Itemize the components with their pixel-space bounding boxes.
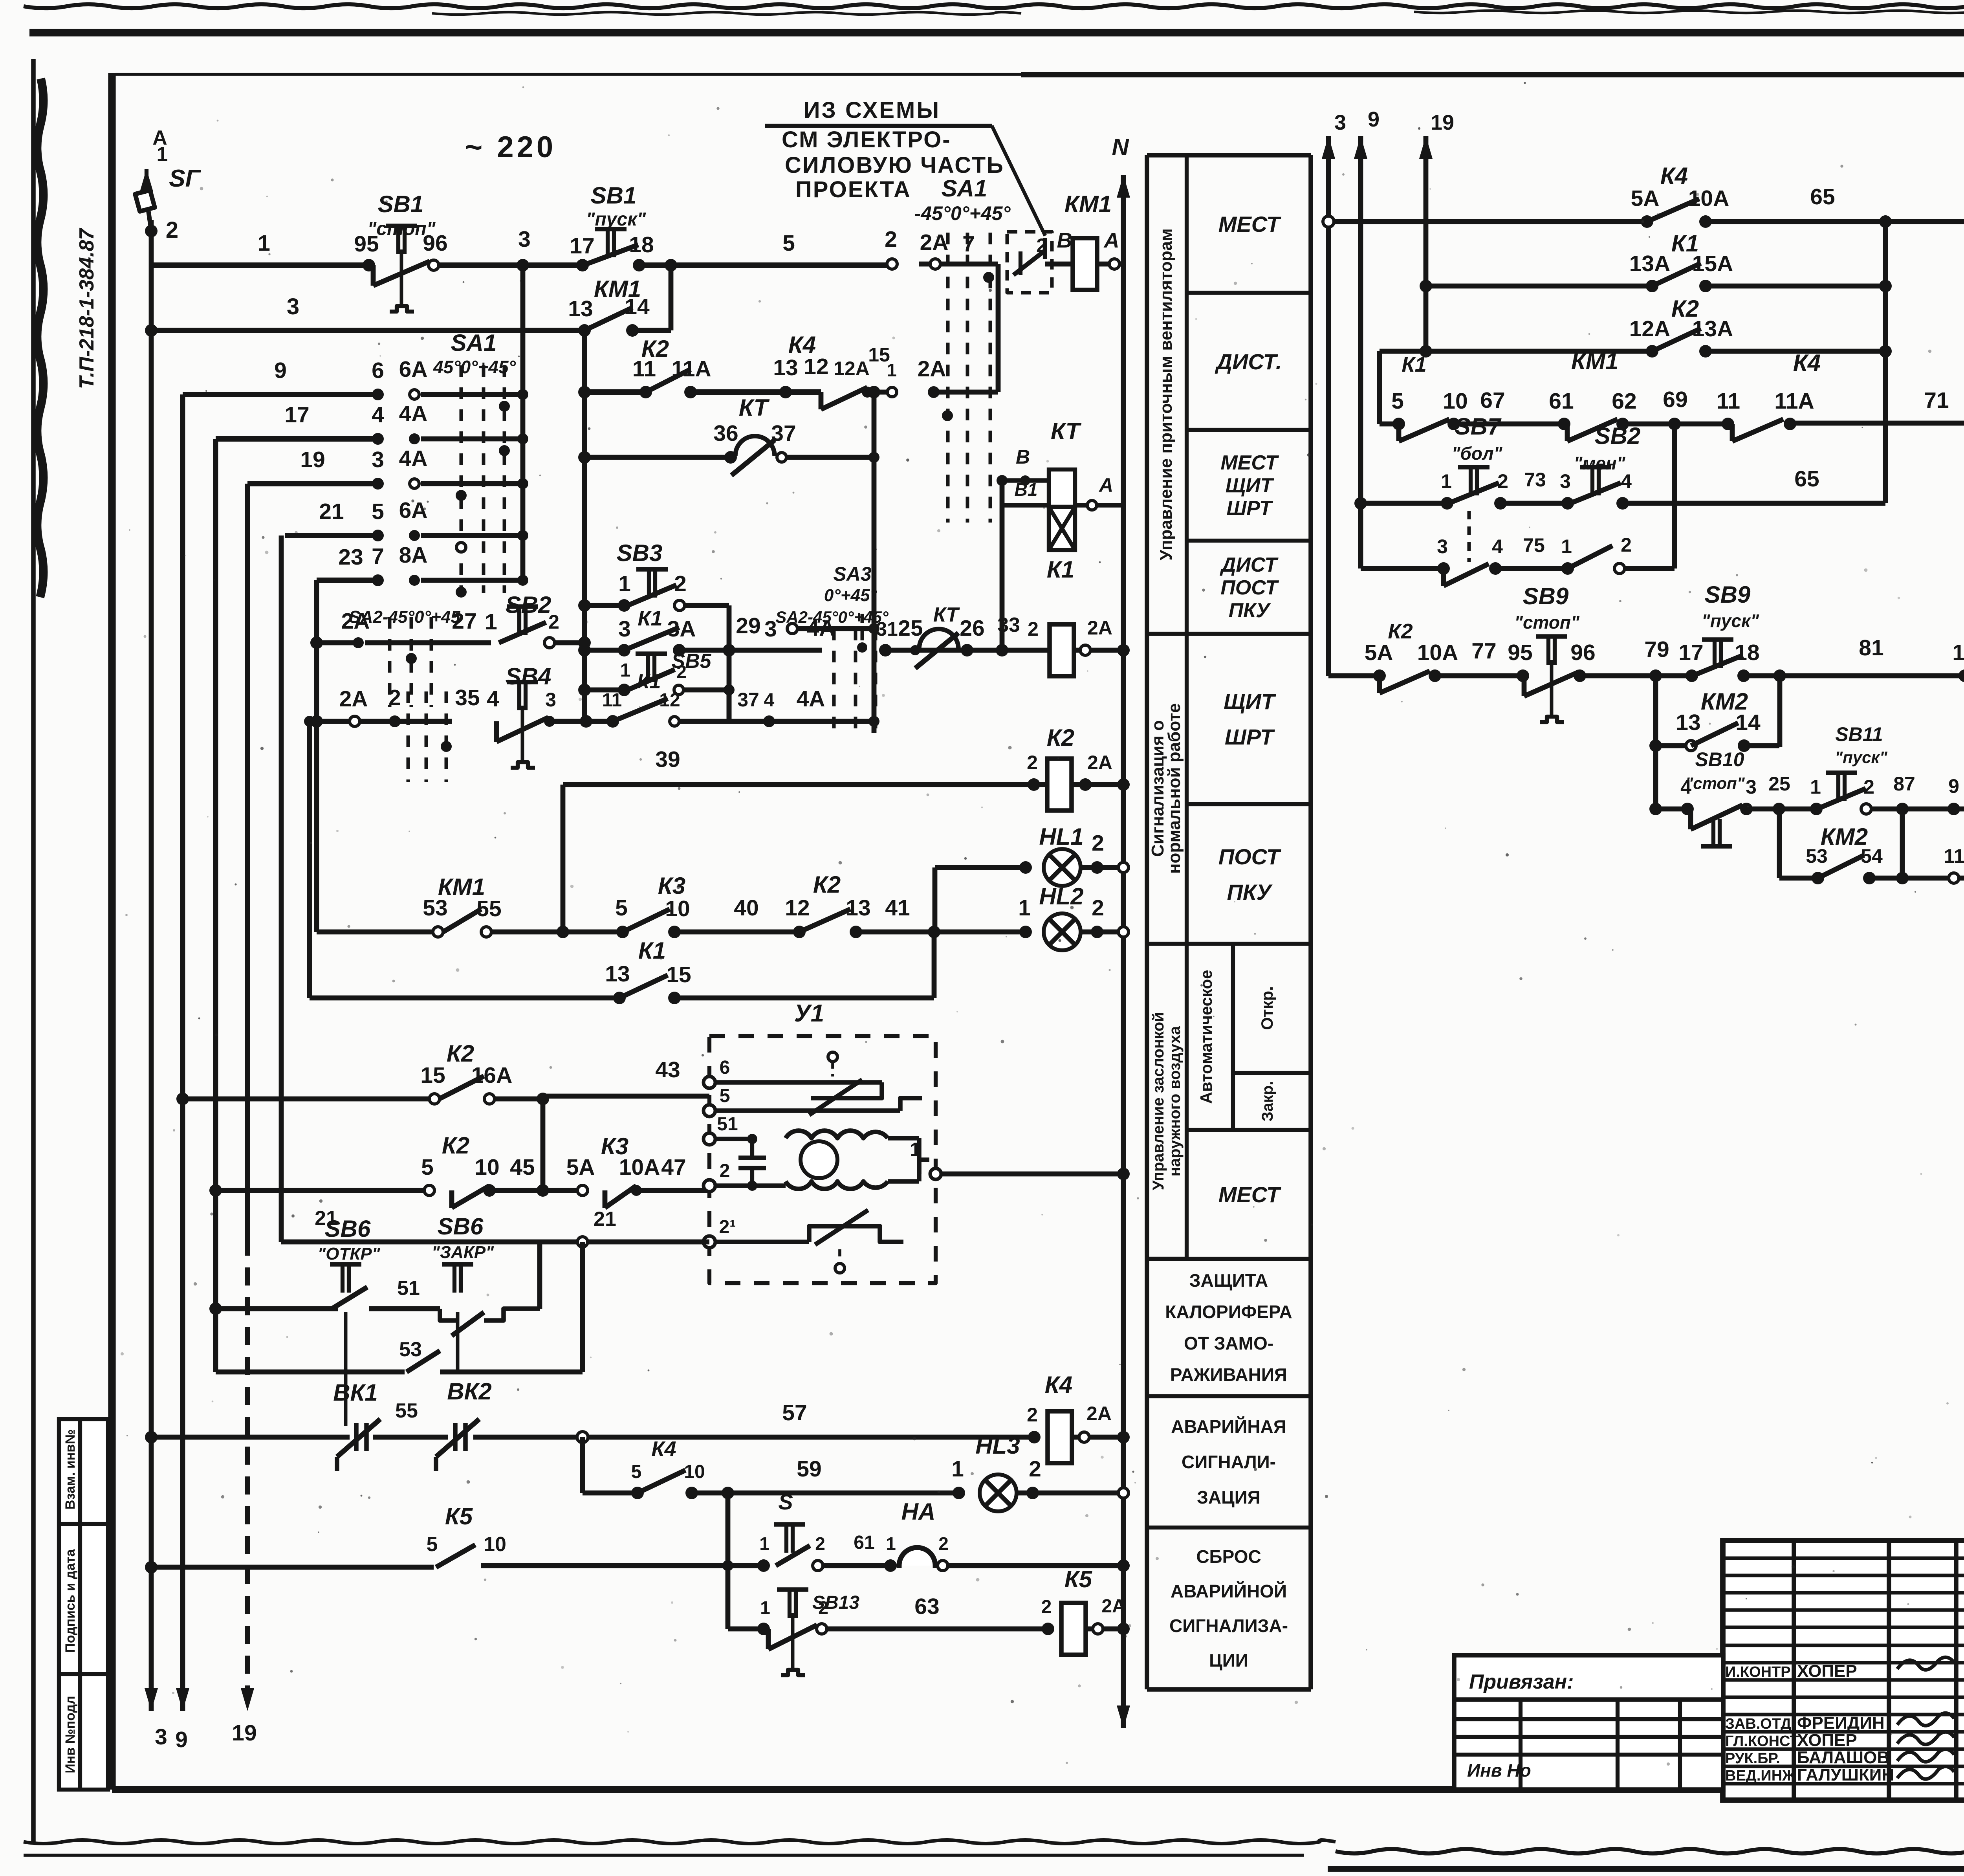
svg-text:15: 15 xyxy=(666,962,691,987)
svg-text:К5: К5 xyxy=(445,1503,473,1529)
svg-text:SB6: SB6 xyxy=(438,1213,484,1240)
svg-text:2: 2 xyxy=(1092,895,1104,921)
svg-text:7: 7 xyxy=(372,544,384,569)
svg-text:К1: К1 xyxy=(1047,556,1074,583)
svg-text:4А: 4А xyxy=(399,401,428,426)
svg-text:2: 2 xyxy=(548,611,559,633)
svg-text:ЗАВ.ОТД: ЗАВ.ОТД xyxy=(1725,1716,1791,1732)
svg-text:3: 3 xyxy=(1334,111,1346,134)
svg-text:51: 51 xyxy=(397,1277,420,1300)
svg-text:11: 11 xyxy=(602,690,622,711)
svg-text:62: 62 xyxy=(1612,389,1636,414)
svg-text:87: 87 xyxy=(1893,773,1915,795)
svg-text:КТ: КТ xyxy=(933,603,960,626)
svg-text:11: 11 xyxy=(632,356,656,381)
svg-text:14: 14 xyxy=(625,294,650,319)
svg-text:ХОПЕР: ХОПЕР xyxy=(1797,1731,1857,1750)
svg-text:СИЛОВУЮ ЧАСТЬ: СИЛОВУЮ ЧАСТЬ xyxy=(785,152,1004,178)
svg-text:81: 81 xyxy=(1859,635,1883,660)
svg-text:SB7: SB7 xyxy=(1455,413,1502,440)
svg-text:15: 15 xyxy=(420,1063,445,1088)
svg-text:14: 14 xyxy=(1735,710,1761,735)
svg-text:SB11: SB11 xyxy=(1835,723,1883,745)
svg-text:40: 40 xyxy=(734,895,758,921)
svg-text:11: 11 xyxy=(1717,389,1740,414)
svg-text:СИГНАЛИ-: СИГНАЛИ- xyxy=(1182,1452,1276,1472)
svg-text:КМ1: КМ1 xyxy=(1064,191,1112,217)
svg-text:SA3: SA3 xyxy=(833,563,871,585)
svg-text:23: 23 xyxy=(338,545,363,570)
svg-text:5А: 5А xyxy=(1631,186,1660,211)
svg-text:36: 36 xyxy=(713,421,738,446)
svg-text:ФРЕЙДИН: ФРЕЙДИН xyxy=(1797,1713,1885,1733)
svg-text:ШРТ: ШРТ xyxy=(1225,724,1275,749)
svg-text:54: 54 xyxy=(1861,845,1883,867)
svg-text:45°0°+45°: 45°0°+45° xyxy=(433,357,516,377)
svg-text:13: 13 xyxy=(605,961,630,987)
svg-text:ГЛ.КОНСТ: ГЛ.КОНСТ xyxy=(1725,1733,1799,1749)
svg-text:К4: К4 xyxy=(1793,350,1821,376)
svg-text:53: 53 xyxy=(399,1338,422,1361)
svg-text:ХОПЕР: ХОПЕР xyxy=(1797,1661,1857,1681)
svg-text:2: 2 xyxy=(1028,618,1039,640)
svg-text:11А: 11А xyxy=(671,356,711,381)
svg-text:13А: 13А xyxy=(1692,316,1733,341)
svg-text:3: 3 xyxy=(545,689,556,711)
svg-text:Т.П-218-1-384.87: Т.П-218-1-384.87 xyxy=(75,228,98,389)
svg-text:SB6: SB6 xyxy=(325,1216,371,1242)
svg-text:2А: 2А xyxy=(341,609,370,634)
svg-text:НА: НА xyxy=(901,1498,936,1525)
svg-text:2: 2 xyxy=(885,227,897,252)
svg-text:2: 2 xyxy=(720,1161,730,1181)
svg-text:10А: 10А xyxy=(619,1155,660,1180)
svg-text:"мен": "мен" xyxy=(1574,453,1625,473)
svg-text:4: 4 xyxy=(1492,535,1503,557)
svg-text:13: 13 xyxy=(773,355,798,380)
svg-text:2: 2 xyxy=(1863,776,1874,798)
svg-text:К4: К4 xyxy=(1045,1372,1072,1398)
svg-text:В: В xyxy=(1057,229,1072,252)
svg-text:SB1: SB1 xyxy=(591,182,637,209)
svg-text:SB2: SB2 xyxy=(1595,423,1641,449)
svg-text:17: 17 xyxy=(570,233,594,259)
svg-text:2: 2 xyxy=(1621,534,1632,556)
svg-text:3: 3 xyxy=(618,616,631,642)
svg-text:КТ: КТ xyxy=(739,394,770,421)
svg-text:Управление заслонкой: Управление заслонкой xyxy=(1150,1012,1167,1190)
svg-text:ОТ ЗАМО-: ОТ ЗАМО- xyxy=(1184,1333,1273,1353)
svg-text:1: 1 xyxy=(157,143,168,166)
svg-text:2А: 2А xyxy=(920,230,949,255)
svg-text:77: 77 xyxy=(1471,638,1496,664)
svg-text:"ОТКР": "ОТКР" xyxy=(317,1244,380,1264)
svg-text:2: 2 xyxy=(1036,235,1047,257)
svg-text:41: 41 xyxy=(885,895,910,921)
svg-text:SB3: SB3 xyxy=(617,540,663,566)
svg-text:5: 5 xyxy=(427,1533,438,1556)
svg-text:2: 2 xyxy=(1092,831,1104,856)
svg-text:3: 3 xyxy=(518,227,531,252)
svg-text:~ 220: ~ 220 xyxy=(465,130,556,164)
svg-text:"ЗАКР": "ЗАКР" xyxy=(432,1243,494,1262)
svg-text:К1: К1 xyxy=(637,670,661,693)
svg-text:SB10: SB10 xyxy=(1695,748,1744,770)
svg-text:ДИСТ.: ДИСТ. xyxy=(1215,349,1282,374)
svg-text:59: 59 xyxy=(797,1456,821,1482)
svg-text:61: 61 xyxy=(854,1532,874,1553)
svg-text:Инв Но: Инв Но xyxy=(1467,1760,1531,1781)
svg-text:-45°0°+45°: -45°0°+45° xyxy=(914,202,1011,224)
svg-text:21: 21 xyxy=(319,499,344,524)
svg-text:2: 2 xyxy=(674,571,687,596)
svg-text:2: 2 xyxy=(1029,1456,1041,1482)
svg-text:ВК2: ВК2 xyxy=(447,1378,492,1405)
svg-text:Подпись и дата: Подпись и дата xyxy=(63,1549,78,1653)
svg-text:3А: 3А xyxy=(667,616,696,642)
svg-text:43: 43 xyxy=(655,1057,680,1082)
svg-text:SB1: SB1 xyxy=(378,191,424,217)
svg-text:21: 21 xyxy=(594,1208,616,1230)
svg-text:ВК1: ВК1 xyxy=(333,1379,378,1406)
svg-text:9: 9 xyxy=(1948,775,1959,797)
svg-text:10А: 10А xyxy=(1688,186,1729,211)
svg-text:51: 51 xyxy=(717,1114,738,1135)
svg-text:13: 13 xyxy=(568,296,593,321)
svg-text:47: 47 xyxy=(661,1155,686,1180)
svg-text:РАЖИВАНИЯ: РАЖИВАНИЯ xyxy=(1170,1364,1287,1385)
svg-text:10А: 10А xyxy=(1417,640,1458,665)
svg-text:29: 29 xyxy=(736,613,760,638)
svg-text:2: 2 xyxy=(388,685,401,710)
svg-text:SB2: SB2 xyxy=(506,592,551,618)
svg-text:5: 5 xyxy=(372,499,384,524)
svg-text:К4: К4 xyxy=(651,1437,676,1461)
svg-text:ИЗ СХЕМЫ: ИЗ СХЕМЫ xyxy=(804,97,940,123)
svg-text:15А: 15А xyxy=(1692,251,1733,276)
svg-text:2А: 2А xyxy=(339,686,368,712)
svg-text:9: 9 xyxy=(175,1727,188,1752)
svg-text:SГ: SГ xyxy=(169,165,201,192)
svg-text:6А: 6А xyxy=(399,357,428,382)
svg-text:Привязан:: Привязан: xyxy=(1469,1671,1574,1693)
svg-text:3: 3 xyxy=(155,1724,167,1749)
svg-text:16А: 16А xyxy=(471,1063,513,1088)
svg-text:К4: К4 xyxy=(1660,163,1688,189)
svg-text:1: 1 xyxy=(951,1456,964,1482)
svg-text:К1: К1 xyxy=(1402,353,1426,376)
svg-text:"пуск": "пуск" xyxy=(586,209,647,230)
svg-text:75: 75 xyxy=(1523,534,1545,556)
svg-text:АВАРИЙНОЙ: АВАРИЙНОЙ xyxy=(1171,1581,1287,1601)
svg-text:К2: К2 xyxy=(447,1040,474,1067)
svg-text:К2: К2 xyxy=(1047,724,1074,751)
svg-text:SB4: SB4 xyxy=(506,663,551,690)
svg-text:S: S xyxy=(778,1489,793,1514)
svg-text:65: 65 xyxy=(1794,466,1819,491)
svg-text:2А: 2А xyxy=(1087,617,1112,639)
svg-text:ЦИИ: ЦИИ xyxy=(1209,1650,1248,1671)
svg-text:2А: 2А xyxy=(1101,1596,1125,1617)
svg-text:1: 1 xyxy=(620,660,631,681)
svg-text:Автоматическое: Автоматическое xyxy=(1197,970,1215,1104)
svg-text:37: 37 xyxy=(771,421,796,446)
svg-text:95: 95 xyxy=(1508,640,1532,665)
svg-text:Откр.: Откр. xyxy=(1258,986,1276,1030)
svg-text:27: 27 xyxy=(452,609,476,634)
svg-text:57: 57 xyxy=(782,1400,807,1425)
svg-text:12: 12 xyxy=(785,895,810,921)
svg-text:19: 19 xyxy=(300,447,325,472)
svg-text:12А: 12А xyxy=(834,358,870,380)
svg-text:"пуск": "пуск" xyxy=(1835,748,1888,767)
svg-text:4А: 4А xyxy=(797,686,825,712)
svg-text:9: 9 xyxy=(1368,108,1380,131)
svg-text:2А: 2А xyxy=(918,356,946,381)
svg-text:9: 9 xyxy=(274,358,287,383)
svg-text:КАЛОРИФЕРА: КАЛОРИФЕРА xyxy=(1165,1302,1292,1322)
svg-text:РУК.БР.: РУК.БР. xyxy=(1725,1750,1780,1767)
svg-text:"стоп": "стоп" xyxy=(1514,612,1580,633)
svg-text:БАЛАШОВ: БАЛАШОВ xyxy=(1797,1748,1889,1767)
svg-text:6: 6 xyxy=(372,358,384,383)
svg-text:2: 2 xyxy=(676,662,687,682)
svg-text:10: 10 xyxy=(1443,389,1468,414)
svg-text:В: В xyxy=(1016,446,1030,468)
svg-text:69: 69 xyxy=(1663,387,1687,412)
svg-text:19: 19 xyxy=(1431,111,1454,134)
svg-text:"стоп": "стоп" xyxy=(368,218,436,239)
svg-text:SA1: SA1 xyxy=(451,330,497,356)
svg-text:3: 3 xyxy=(1560,470,1571,492)
svg-text:ГАЛУШКИН: ГАЛУШКИН xyxy=(1797,1765,1894,1784)
svg-text:39: 39 xyxy=(655,747,680,772)
svg-text:МЕСТ: МЕСТ xyxy=(1218,212,1282,237)
svg-text:10: 10 xyxy=(475,1155,499,1180)
svg-text:4: 4 xyxy=(764,690,775,711)
svg-text:5: 5 xyxy=(615,895,628,921)
svg-text:3: 3 xyxy=(287,294,299,319)
svg-text:N: N xyxy=(1112,134,1129,160)
svg-text:1: 1 xyxy=(1561,535,1572,557)
svg-text:3: 3 xyxy=(372,447,384,472)
svg-text:53: 53 xyxy=(423,895,447,921)
svg-text:2¹: 2¹ xyxy=(719,1217,736,1238)
svg-text:4: 4 xyxy=(372,402,384,427)
svg-text:11: 11 xyxy=(1944,845,1964,867)
svg-text:10: 10 xyxy=(484,1533,506,1556)
svg-text:ПОСТ: ПОСТ xyxy=(1218,844,1282,869)
svg-text:ПРОЕКТА: ПРОЕКТА xyxy=(795,177,911,202)
svg-text:А: А xyxy=(1098,474,1113,496)
svg-text:КТ: КТ xyxy=(1051,418,1082,444)
svg-text:1: 1 xyxy=(618,571,631,596)
svg-text:25: 25 xyxy=(898,616,923,641)
svg-text:КМ1: КМ1 xyxy=(1571,348,1618,374)
svg-text:SB9: SB9 xyxy=(1705,581,1751,608)
svg-text:"стоп": "стоп" xyxy=(1685,774,1745,792)
svg-text:4: 4 xyxy=(487,686,499,712)
svg-text:ПОСТ: ПОСТ xyxy=(1220,576,1279,599)
svg-text:2: 2 xyxy=(815,1533,825,1554)
svg-text:4: 4 xyxy=(1680,776,1691,798)
svg-text:"бол": "бол" xyxy=(1452,443,1503,464)
svg-text:HL3: HL3 xyxy=(975,1432,1020,1459)
svg-text:К2: К2 xyxy=(813,871,841,898)
svg-text:55: 55 xyxy=(395,1399,418,1422)
svg-text:ЩИТ: ЩИТ xyxy=(1226,474,1275,497)
svg-text:К2: К2 xyxy=(442,1132,469,1159)
svg-text:ПКУ: ПКУ xyxy=(1229,599,1271,622)
svg-text:13А: 13А xyxy=(1629,251,1671,276)
svg-text:К1: К1 xyxy=(638,607,662,630)
svg-text:наружного воздуха: наружного воздуха xyxy=(1166,1026,1184,1176)
svg-text:ЗАЩИТА: ЗАЩИТА xyxy=(1189,1270,1268,1291)
svg-text:5: 5 xyxy=(1391,389,1404,414)
svg-text:13: 13 xyxy=(1676,710,1700,735)
svg-text:ШРТ: ШРТ xyxy=(1226,497,1273,520)
svg-text:МЕСТ: МЕСТ xyxy=(1218,1182,1282,1207)
svg-text:12А: 12А xyxy=(1629,316,1671,341)
svg-text:55: 55 xyxy=(476,896,501,921)
svg-text:26: 26 xyxy=(960,616,984,641)
svg-text:ЗАЦИЯ: ЗАЦИЯ xyxy=(1197,1487,1260,1507)
svg-text:1: 1 xyxy=(485,609,497,635)
svg-text:6: 6 xyxy=(720,1057,730,1078)
svg-text:СБРОС: СБРОС xyxy=(1196,1546,1261,1567)
svg-text:5: 5 xyxy=(782,231,795,256)
svg-text:8А: 8А xyxy=(399,543,428,568)
svg-text:11А: 11А xyxy=(1774,389,1814,414)
svg-text:3: 3 xyxy=(1437,535,1448,557)
svg-text:"пуск": "пуск" xyxy=(1702,611,1759,631)
svg-text:К3: К3 xyxy=(658,873,685,899)
svg-text:4А: 4А xyxy=(399,446,428,471)
svg-text:13: 13 xyxy=(846,895,870,921)
svg-text:И.КОНТР: И.КОНТР xyxy=(1725,1664,1791,1680)
svg-text:А: А xyxy=(1103,229,1119,252)
svg-text:1: 1 xyxy=(760,1597,770,1618)
svg-text:ВЕД.ИНЖ: ВЕД.ИНЖ xyxy=(1725,1768,1796,1784)
svg-text:1: 1 xyxy=(887,360,897,380)
svg-text:2: 2 xyxy=(1497,470,1508,492)
svg-text:5: 5 xyxy=(421,1155,434,1180)
svg-text:5А: 5А xyxy=(1365,640,1393,665)
svg-text:7: 7 xyxy=(962,231,975,257)
svg-text:3: 3 xyxy=(1746,776,1757,798)
svg-text:2: 2 xyxy=(818,1597,828,1618)
svg-text:СМ ЭЛЕКТРО-: СМ ЭЛЕКТРО- xyxy=(782,127,951,152)
svg-text:МЕСТ: МЕСТ xyxy=(1220,451,1279,474)
svg-text:SA1: SA1 xyxy=(942,175,987,202)
svg-text:10: 10 xyxy=(684,1462,705,1482)
svg-text:63: 63 xyxy=(914,1594,939,1619)
svg-text:0°+45°: 0°+45° xyxy=(824,586,877,605)
svg-text:2А: 2А xyxy=(1087,752,1112,774)
svg-text:53: 53 xyxy=(1806,845,1828,867)
svg-text:У1: У1 xyxy=(794,1000,824,1027)
svg-text:СИГНАЛИЗА-: СИГНАЛИЗА- xyxy=(1169,1616,1288,1636)
svg-text:37: 37 xyxy=(737,689,759,711)
svg-text:10: 10 xyxy=(665,896,690,921)
svg-text:1: 1 xyxy=(258,231,270,256)
svg-text:Закр.: Закр. xyxy=(1259,1081,1276,1122)
svg-text:79: 79 xyxy=(1644,637,1669,662)
svg-text:В1: В1 xyxy=(1015,479,1038,500)
svg-text:71: 71 xyxy=(1924,388,1949,413)
svg-text:25: 25 xyxy=(1768,773,1790,795)
svg-text:10: 10 xyxy=(1952,640,1964,665)
svg-text:1: 1 xyxy=(886,1533,896,1554)
svg-text:2: 2 xyxy=(1041,1597,1052,1617)
svg-text:К2: К2 xyxy=(1388,620,1413,643)
svg-text:5: 5 xyxy=(720,1086,730,1106)
svg-text:12: 12 xyxy=(804,354,828,379)
svg-text:96: 96 xyxy=(1570,640,1595,665)
svg-text:3: 3 xyxy=(764,616,777,642)
svg-text:1: 1 xyxy=(910,1139,921,1160)
svg-text:67: 67 xyxy=(1480,388,1505,413)
svg-text:1: 1 xyxy=(759,1533,769,1554)
svg-text:19: 19 xyxy=(232,1720,256,1746)
svg-text:4: 4 xyxy=(1621,470,1632,492)
svg-text:Управление приточным вентилято: Управление приточным вентиляторам xyxy=(1156,228,1176,560)
svg-text:5А: 5А xyxy=(566,1155,595,1180)
svg-text:HL1: HL1 xyxy=(1039,823,1083,850)
svg-text:SB9: SB9 xyxy=(1523,583,1569,609)
svg-text:Взам. инв№: Взам. инв№ xyxy=(63,1429,78,1509)
svg-text:65: 65 xyxy=(1810,184,1835,209)
svg-text:45: 45 xyxy=(510,1155,535,1180)
svg-text:К5: К5 xyxy=(1064,1566,1093,1592)
svg-text:61: 61 xyxy=(1549,389,1574,414)
svg-text:2: 2 xyxy=(166,217,178,243)
svg-text:1: 1 xyxy=(1441,470,1452,492)
svg-text:2: 2 xyxy=(938,1533,949,1554)
svg-text:2: 2 xyxy=(1027,752,1038,774)
svg-text:АВАРИЙНАЯ: АВАРИЙНАЯ xyxy=(1171,1416,1286,1437)
svg-text:18: 18 xyxy=(629,232,654,257)
svg-text:ДИСТ: ДИСТ xyxy=(1220,554,1279,576)
svg-text:1: 1 xyxy=(1810,776,1821,798)
svg-text:2А: 2А xyxy=(1086,1403,1112,1425)
svg-text:нормальной работе: нормальной работе xyxy=(1165,703,1184,874)
svg-text:5: 5 xyxy=(631,1462,642,1482)
svg-text:12: 12 xyxy=(659,690,680,711)
svg-text:1: 1 xyxy=(1018,895,1031,921)
svg-text:35: 35 xyxy=(455,685,480,710)
svg-text:18: 18 xyxy=(1735,640,1759,665)
svg-text:17: 17 xyxy=(284,402,309,427)
svg-text:ПКУ: ПКУ xyxy=(1227,880,1273,904)
svg-text:73: 73 xyxy=(1524,469,1546,491)
svg-text:2: 2 xyxy=(1027,1404,1038,1426)
svg-text:Инв №подл: Инв №подл xyxy=(63,1696,78,1773)
svg-text:17: 17 xyxy=(1678,640,1703,665)
svg-text:ЩИТ: ЩИТ xyxy=(1224,689,1277,714)
